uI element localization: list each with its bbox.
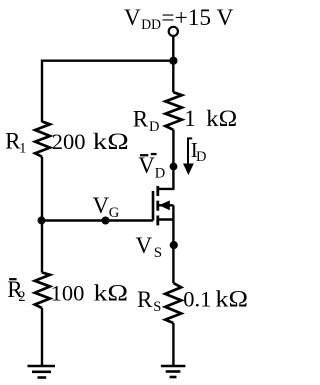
svg-text:=+15 V: =+15 V [161,5,233,30]
svg-text:kΩ: kΩ [215,287,248,312]
svg-text:D: D [196,149,206,165]
svg-text:R: R [137,287,153,312]
svg-text:V: V [124,5,141,30]
svg-text:DD: DD [141,17,161,33]
svg-text:1: 1 [184,106,196,131]
svg-text:100: 100 [51,280,85,305]
svg-text:G: G [109,205,120,221]
svg-text:S: S [154,245,162,261]
svg-text:kΩ: kΩ [206,106,237,131]
svg-text:V: V [138,153,155,178]
svg-text:0.1: 0.1 [183,287,211,312]
svg-text:kΩ: kΩ [93,129,129,154]
svg-text:kΩ: kΩ [94,280,129,305]
svg-text:1: 1 [19,141,26,157]
svg-text:V: V [93,193,110,218]
svg-text:D: D [155,165,165,181]
svg-text:200: 200 [52,129,86,154]
svg-text:V: V [136,233,153,258]
svg-text:D: D [149,119,159,135]
svg-text:2: 2 [18,289,25,305]
svg-text:R: R [133,107,149,132]
svg-text:S: S [153,299,161,315]
